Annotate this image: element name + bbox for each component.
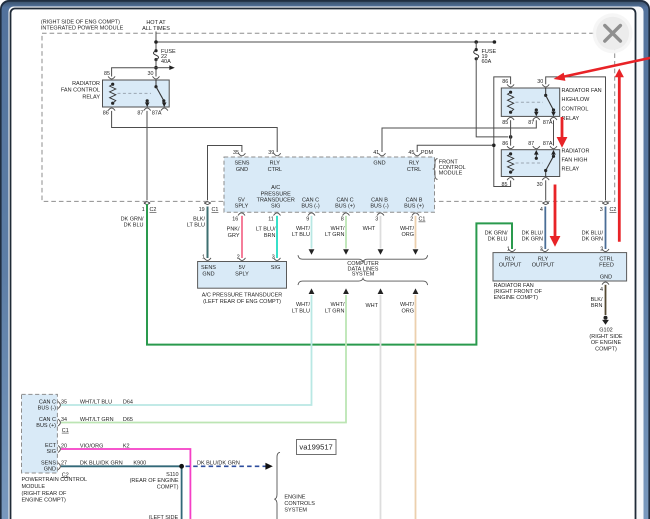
label BLK/BRN (591, 297, 603, 309)
svg-text:BUS (+): BUS (+) (404, 204, 424, 210)
transducer name label (202, 293, 283, 305)
wire relay3 pin30 to connector C2-4 (545, 180, 547, 200)
relay K3 coil (508, 152, 514, 173)
wire FCM pin45 to relay coil wrap (417, 145, 492, 152)
svg-text:SPLY: SPLY (235, 204, 249, 210)
svg-text:85: 85 (502, 182, 508, 188)
label WHT/LT GRN D65 row (80, 417, 133, 423)
svg-text:87A: 87A (543, 141, 553, 147)
svg-text:BUS (+): BUS (+) (335, 204, 355, 210)
svg-text:ALL TIMES: ALL TIMES (142, 26, 170, 32)
svg-text:C1: C1 (419, 217, 426, 223)
svg-text:DK GRN: DK GRN (582, 237, 603, 243)
svg-text:OUTPUT: OUTPUT (499, 263, 522, 269)
label DK GRN/DK BLU at fan pin1 (485, 230, 508, 242)
relay K2 pin 85 terminal cup (507, 117, 514, 120)
svg-text:11: 11 (268, 217, 274, 223)
svg-text:WHT/: WHT/ (296, 302, 311, 308)
svg-text:8: 8 (341, 217, 344, 223)
label WHT/LT GRN upper (325, 226, 345, 238)
svg-text:C1: C1 (62, 428, 69, 434)
relay K1 pin 87A terminal cup (161, 108, 168, 111)
svg-text:TRANSDUCER: TRANSDUCER (257, 198, 295, 204)
FCM bottom terminal cups (238, 213, 419, 216)
PCM name label (22, 477, 88, 503)
connector C2 pin1 symbol (142, 202, 157, 213)
wire FCM pin35 to connector C1-19 (208, 146, 242, 201)
svg-text:SIG: SIG (47, 449, 56, 455)
svg-text:BLK/: BLK/ (193, 216, 205, 222)
svg-text:LT BLU: LT BLU (292, 308, 310, 314)
svg-text:BRN: BRN (264, 233, 276, 239)
svg-text:BUS (-): BUS (-) (370, 204, 389, 210)
PCM pin terminal cups (58, 402, 60, 470)
relay K3 pin 87 contact (534, 150, 539, 160)
svg-text:RELAY: RELAY (562, 116, 580, 122)
svg-text:WHT/: WHT/ (330, 226, 345, 232)
wire PNK/GRY FCM16 to transducer pin2 (241, 216, 243, 258)
junction at fuse 19 top (474, 40, 478, 44)
wire VIO/ORG ECT signal (61, 449, 190, 519)
svg-text:ECT: ECT (45, 443, 57, 449)
wire branch to relay1 pin 85 (112, 68, 156, 77)
svg-text:DK BLU/: DK BLU/ (582, 230, 604, 236)
svg-text:PDM: PDM (421, 150, 434, 156)
radiator fan motor body (493, 253, 627, 281)
label PNK/GRY (227, 227, 240, 239)
svg-text:(LEFT SIDE: (LEFT SIDE (149, 515, 179, 519)
relay K1 pin 86 terminal cup (108, 108, 115, 111)
svg-text:39: 39 (268, 150, 274, 156)
svg-text:WHT/: WHT/ (400, 226, 415, 232)
FCM name label (439, 160, 466, 177)
node ENGINE CONTROLS SYSTEM (284, 495, 315, 514)
svg-text:CAN C: CAN C (336, 198, 353, 204)
relay K3 pin 87A terminal cup (550, 146, 557, 149)
junction fuse19 wire at 85/86 vertical (509, 135, 513, 139)
relay K2 coil (508, 91, 514, 114)
node COMPUTER DATA LINES SYSTEM (347, 261, 379, 278)
wire fuse19 output down to relay coil node (476, 59, 508, 137)
svg-text:GND: GND (44, 467, 56, 473)
label WHT/LT BLU upper (292, 226, 311, 238)
svg-text:35: 35 (61, 399, 67, 405)
svg-text:86: 86 (103, 111, 109, 117)
svg-text:COMPT): COMPT) (157, 484, 179, 490)
relay K2 pin 87 contact (534, 108, 539, 116)
svg-text:(REAR OF ENGINE: (REAR OF ENGINE (130, 478, 179, 484)
svg-text:MODULE: MODULE (439, 171, 463, 177)
svg-text:DK BLU/: DK BLU/ (522, 230, 544, 236)
svg-text:FEED: FEED (599, 263, 614, 269)
wire WHT CAN B minus down to data bus (378, 216, 384, 255)
PCM powertrain control module body (22, 394, 58, 473)
svg-text:DK GRN/: DK GRN/ (121, 216, 144, 222)
wire hot feed down to fuse 22 (155, 32, 157, 51)
svg-text:POWERTRAIN CONTROL: POWERTRAIN CONTROL (22, 477, 88, 483)
relay K1 radiator fan control relay label (61, 81, 100, 101)
label BLK/LT BLU (187, 216, 206, 228)
IPM label (41, 19, 124, 31)
svg-text:45: 45 (408, 150, 414, 156)
relay K3 actuator dashed link (516, 162, 544, 164)
wire BLK/LT BLU C1-19 to transducer pin1 (207, 207, 209, 259)
FCM pin 39 terminal cup (274, 153, 281, 156)
svg-text:CONTROL: CONTROL (562, 107, 589, 113)
relay K1 pin 30 terminal cup (153, 76, 160, 79)
svg-text:DK BLU: DK BLU (488, 237, 508, 243)
svg-text:WHT/: WHT/ (330, 302, 345, 308)
svg-text:RLY: RLY (538, 256, 549, 262)
fan motor terminal cups (509, 249, 610, 252)
relay K2 pin 86 terminal cup (507, 84, 514, 87)
label LT BLU/BRN (256, 227, 276, 239)
label DK BLU/DK GRN at fan pin3 (522, 230, 544, 242)
svg-text:DK GRN/: DK GRN/ (485, 230, 508, 236)
svg-text:GND: GND (236, 167, 248, 173)
relay K2 pin 30 terminal cup (542, 84, 549, 87)
FCM top pin function labels (235, 161, 422, 173)
ground G102 symbol (602, 316, 609, 325)
relay K2 switch blade 30 to 87A (544, 88, 556, 116)
watermark id box va199517 (297, 440, 337, 455)
FCM bottom pin function labels (235, 185, 424, 210)
label WHT/ORG lower (400, 302, 415, 314)
svg-text:87: 87 (528, 120, 534, 126)
svg-text:SYSTEM: SYSTEM (284, 508, 307, 514)
svg-text:WHT/LT BLU: WHT/LT BLU (80, 399, 112, 405)
svg-text:ORG: ORG (401, 232, 414, 238)
svg-text:1: 1 (202, 254, 205, 260)
relay K1 body (103, 80, 170, 107)
label WHT/LT GRN lower (325, 302, 345, 314)
wire WHT/LT BLU CAN C minus down to data bus (309, 216, 315, 255)
svg-text:SPLY: SPLY (235, 271, 249, 277)
svg-text:87: 87 (137, 111, 143, 117)
svg-text:FAN HIGH: FAN HIGH (562, 158, 588, 164)
brace computer data lines upper (298, 255, 428, 262)
svg-text:40A: 40A (161, 59, 171, 65)
svg-text:COMPT): COMPT) (595, 346, 617, 352)
svg-text:(RIGHT SIDE OF ENG COMPT): (RIGHT SIDE OF ENG COMPT) (41, 19, 120, 25)
FCM pin 41 terminal cup (379, 153, 386, 156)
wire relay2 pin87 to FCM pin41 (382, 120, 536, 152)
relay K2 pin 87 terminal cup (533, 117, 540, 120)
svg-text:30: 30 (537, 182, 543, 188)
svg-text:CONTROLS: CONTROLS (284, 501, 315, 507)
svg-text:WHT: WHT (365, 303, 378, 309)
svg-text:HIGH/LOW: HIGH/LOW (562, 97, 591, 103)
svg-text:GRY: GRY (228, 233, 240, 239)
label WHT/LT BLU D64 row (80, 399, 133, 405)
svg-text:41: 41 (373, 150, 379, 156)
svg-text:(LEFT REAR OF ENG COMPT): (LEFT REAR OF ENG COMPT) (203, 299, 281, 305)
svg-text:PRESSURE: PRESSURE (261, 191, 292, 197)
svg-text:(RIGHT SIDE: (RIGHT SIDE (589, 334, 623, 340)
svg-text:1: 1 (142, 207, 145, 213)
FCM front control module body (224, 157, 435, 212)
PCM pin function labels (36, 399, 56, 472)
svg-text:60A: 60A (482, 59, 492, 65)
red highlight arrow relay2 to relay3 (557, 117, 568, 148)
svg-text:3: 3 (375, 217, 378, 223)
svg-text:C1: C1 (212, 207, 219, 213)
svg-text:ENGINE COMPT): ENGINE COMPT) (22, 498, 66, 504)
svg-text:ORG: ORG (401, 308, 414, 314)
svg-text:SIG: SIG (271, 265, 280, 271)
relay K3 pin 85 terminal cup (507, 178, 514, 181)
svg-text:85: 85 (104, 71, 110, 77)
svg-text:PNK/: PNK/ (227, 227, 240, 233)
relay K2 label (562, 88, 602, 122)
svg-text:D64: D64 (123, 399, 133, 405)
relay K3 radiator fan high relay body (501, 150, 559, 177)
label DK GRN/DK BLU left (121, 216, 144, 228)
svg-text:RADIATOR: RADIATOR (72, 81, 100, 87)
relay K3 pin 86 terminal cup (507, 146, 514, 149)
svg-text:87A: 87A (543, 120, 553, 126)
svg-text:GND: GND (373, 161, 385, 167)
fuse F22 40A (154, 49, 177, 65)
svg-text:5V: 5V (239, 265, 246, 271)
svg-text:RELAY: RELAY (82, 94, 100, 100)
wire relay2 pin30 to connector C2-3 (546, 77, 606, 200)
svg-text:5V: 5V (238, 198, 245, 204)
svg-text:ENGINE COMPT): ENGINE COMPT) (494, 295, 538, 301)
ground G102 label (589, 328, 623, 353)
svg-text:GND: GND (202, 271, 214, 277)
relay K1 coil (110, 83, 116, 105)
wire fuse 22 output (155, 60, 157, 77)
transducer pin function labels (201, 265, 280, 277)
relay K1 switch blade 30 to 87A (154, 80, 166, 107)
svg-text:WHT/: WHT/ (296, 226, 311, 232)
red highlight arrow at fan rly output (550, 185, 561, 247)
svg-text:C2: C2 (610, 207, 617, 213)
FCM pin 45 terminal cup (414, 153, 421, 156)
red highlight arrow diagonal to relay2 pin30 (554, 58, 650, 81)
svg-text:BUS (-): BUS (-) (301, 204, 320, 210)
wire DK GRN/DK BLU from C2-1 to radiator fan pin1 (147, 204, 512, 345)
svg-text:CTRL: CTRL (407, 167, 421, 173)
brace computer data lines lower (298, 278, 428, 285)
svg-text:WHT/LT GRN: WHT/LT GRN (80, 417, 114, 423)
relay K2 pin 87A terminal cup (550, 117, 557, 120)
label DK BLU/DK GRN K900 row (80, 461, 146, 467)
relay K2 radiator fan high/low control relay body (501, 88, 559, 116)
svg-text:WHT/: WHT/ (400, 302, 415, 308)
fan pin function labels (499, 256, 614, 280)
svg-text:va199517: va199517 (299, 443, 332, 452)
svg-text:RLY: RLY (409, 161, 420, 167)
svg-text:INTEGRATED POWER MODULE: INTEGRATED POWER MODULE (41, 25, 124, 31)
svg-text:CAN B: CAN B (406, 198, 423, 204)
transducer pin terminal cups (204, 258, 281, 261)
svg-text:OUTPUT: OUTPUT (532, 263, 555, 269)
label WHT/ORG upper (400, 226, 415, 238)
fan GND pin 4 terminal cup (602, 282, 609, 285)
svg-text:A/C PRESSURE TRANSDUCER: A/C PRESSURE TRANSDUCER (202, 293, 283, 299)
relay K1 actuator dashed link (118, 92, 152, 94)
relay K1 pin 87 contact (145, 99, 150, 107)
transducer A/C pressure transducer body (198, 262, 287, 289)
svg-text:RADIATOR FAN: RADIATOR FAN (562, 88, 602, 94)
label VIO/ORG K2 row (80, 443, 130, 449)
svg-text:4: 4 (600, 287, 603, 293)
svg-text:G102: G102 (599, 328, 612, 334)
svg-text:BUS (-): BUS (-) (38, 406, 57, 412)
close button X (593, 13, 633, 53)
svg-text:4: 4 (540, 207, 543, 213)
FCM pin 35 terminal cup (238, 153, 245, 156)
svg-text:LT GRN: LT GRN (325, 308, 345, 314)
svg-text:S110: S110 (166, 472, 178, 478)
svg-text:34: 34 (61, 417, 67, 423)
wire BLK/BRN fan ground (605, 285, 607, 315)
brace engine controls system (274, 452, 280, 519)
svg-text:FAN CONTROL: FAN CONTROL (61, 88, 100, 94)
svg-text:GND: GND (600, 275, 612, 281)
svg-text:SYSTEM: SYSTEM (352, 272, 375, 278)
svg-text:C2: C2 (150, 207, 157, 213)
connector C2 pin4 symbol (540, 202, 549, 214)
svg-text:OF ENGINE: OF ENGINE (591, 340, 622, 346)
svg-text:D65: D65 (123, 417, 133, 423)
svg-text:BUS (+): BUS (+) (36, 423, 56, 429)
svg-text:87: 87 (528, 141, 534, 147)
svg-text:DK BLU/DK GRN: DK BLU/DK GRN (197, 461, 240, 467)
wire relay2 pin85 to relay3 pin86 (510, 120, 512, 145)
svg-text:SENS: SENS (201, 265, 216, 271)
svg-text:ENGINE: ENGINE (284, 495, 305, 501)
svg-text:DK BLU: DK BLU (124, 223, 144, 229)
relay K1 pin 85 terminal cup (108, 76, 115, 79)
svg-text:BRN: BRN (591, 303, 603, 309)
wire relay1 pin86 to FCM pin39 (112, 111, 278, 152)
wire relay2 pin87A to relay3 pin87A (553, 120, 555, 145)
wire WHT from data bus off page bottom (378, 288, 384, 519)
wire DK BLU/DK GRN C2-4 to fan pin3 (544, 207, 546, 250)
wire WHT/ORG CAN B plus down to data bus (413, 216, 419, 255)
wire relay1 pin87 down to connector C2-1 (146, 111, 148, 200)
splice S110 label (130, 472, 179, 491)
svg-text:CAN C: CAN C (302, 198, 319, 204)
svg-text:WHT: WHT (363, 226, 376, 232)
fuse F19 60A (474, 42, 497, 65)
svg-text:CTRL: CTRL (268, 167, 282, 173)
svg-text:RLY: RLY (270, 161, 281, 167)
svg-text:HOT AT: HOT AT (146, 20, 166, 26)
svg-text:85: 85 (502, 120, 508, 126)
wire DK BLU/DK GRN sensor ground to S110 (61, 466, 182, 519)
splice S110 junction (179, 464, 184, 469)
svg-text:35: 35 (233, 150, 239, 156)
wire DK BLU/DK GRN C2-3 to fan pin2 (605, 207, 607, 250)
relay K2 actuator dashed link (516, 101, 544, 103)
svg-text:RADIATOR: RADIATOR (562, 149, 590, 155)
junction FCM pin45 wire on wrap vertical (492, 144, 496, 148)
wire WHT/LT GRN from data bus to PCM pin34 (61, 288, 349, 422)
svg-text:SENS: SENS (235, 161, 250, 167)
svg-text:DK GRN: DK GRN (522, 237, 543, 243)
wire stub arrow right from fuse22 node (156, 65, 175, 70)
fan name label (494, 283, 543, 301)
svg-text:LT BLU/: LT BLU/ (256, 227, 276, 233)
svg-text:LT BLU: LT BLU (292, 232, 310, 238)
connector C1 pin19 symbol (199, 202, 219, 213)
svg-text:BLK/: BLK/ (591, 297, 603, 303)
relay K1 pin 87 terminal cup (144, 108, 151, 111)
junction at fuse 22 top (154, 40, 158, 44)
relay K3 pin 87 terminal cup (533, 146, 540, 149)
label WHT/LT BLU lower (292, 302, 311, 314)
label DK BLU/DK GRN at fan pin2 (582, 230, 604, 242)
wire WHT/ORG from data bus off page bottom (413, 288, 419, 519)
svg-text:A/C: A/C (271, 185, 280, 191)
IPM integrated power module dashed boundary (42, 33, 615, 201)
svg-text:3: 3 (600, 207, 603, 213)
svg-text:RLY: RLY (505, 256, 516, 262)
svg-text:9: 9 (306, 217, 309, 223)
red highlight vertical line right side (615, 69, 624, 242)
svg-text:SIG: SIG (271, 204, 280, 210)
relay K3 label (562, 149, 590, 173)
svg-text:87A: 87A (152, 111, 162, 117)
FCM right brace (434, 159, 438, 180)
svg-text:SENS: SENS (41, 460, 56, 466)
svg-text:16: 16 (232, 217, 238, 223)
svg-text:19: 19 (199, 207, 205, 213)
wire LT BLU/BRN FCM11 to transducer pin3 (276, 216, 278, 258)
wire WHT/LT GRN CAN C plus down to data bus (343, 216, 349, 255)
svg-text:CAN C: CAN C (39, 417, 56, 423)
junction fuse22 output node (154, 66, 158, 70)
node HOT AT ALL TIMES (142, 20, 170, 32)
svg-text:LT BLU: LT BLU (187, 223, 205, 229)
svg-text:LT GRN: LT GRN (325, 232, 345, 238)
svg-text:(RIGHT REAR OF: (RIGHT REAR OF (22, 491, 67, 497)
svg-text:30: 30 (148, 71, 154, 77)
wire hot feed across to fuse 19 (156, 41, 494, 43)
svg-text:CAN C: CAN C (39, 399, 56, 405)
wire dashed DK BLU/DK GRN to engine controls (186, 461, 273, 470)
relay K3 pin 30 terminal cup (542, 178, 549, 181)
node end dot right of fuse 19 (493, 40, 497, 44)
svg-text:CAN B: CAN B (371, 198, 388, 204)
svg-text:MODULE: MODULE (22, 484, 46, 490)
svg-text:CTRL: CTRL (599, 256, 613, 262)
connector C2 pin3 symbol (600, 202, 617, 214)
wire relay2 pin86 wrap-around feed (494, 77, 511, 187)
svg-text:RELAY: RELAY (562, 167, 580, 173)
svg-text:2: 2 (410, 217, 413, 223)
wire WHT/LT BLU from data bus to PCM pin35 (61, 288, 314, 405)
relay K3 switch blade 30 to 87A (544, 150, 556, 177)
